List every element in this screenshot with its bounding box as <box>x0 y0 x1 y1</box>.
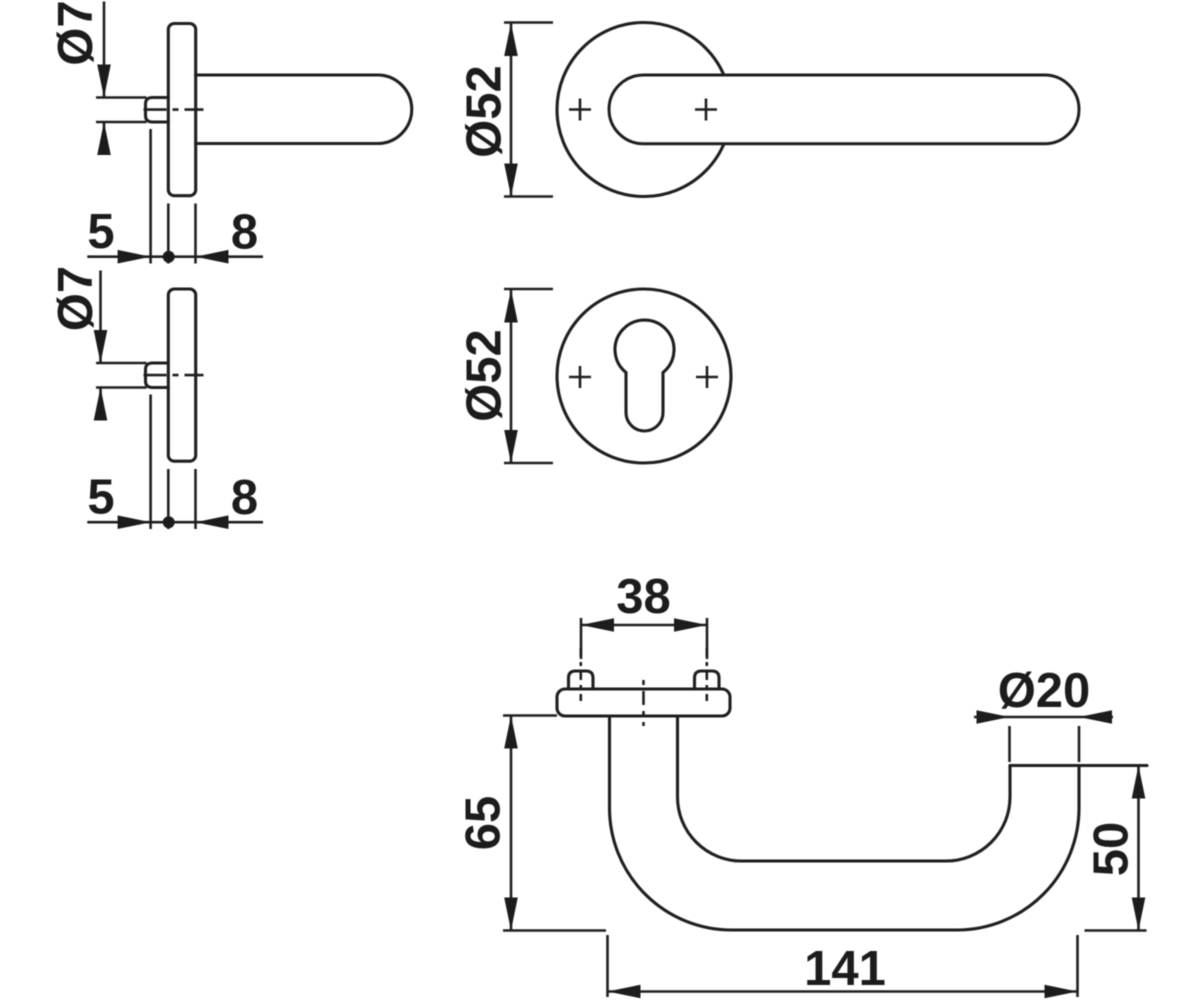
svg-text:Ø20: Ø20 <box>998 664 1091 718</box>
arrow Ø7 bottom <box>94 388 108 421</box>
arrow 38 left <box>581 618 614 632</box>
arrow 8 <box>196 515 229 529</box>
cross mark right <box>696 366 718 388</box>
extension line rose front <box>194 204 197 264</box>
arrow 8 <box>196 250 229 264</box>
svg-text:65: 65 <box>457 796 511 851</box>
mounting plate <box>557 689 730 716</box>
dimension Ø52 line <box>510 23 513 197</box>
arrow 65 up <box>504 716 518 749</box>
svg-text:5: 5 <box>87 471 114 525</box>
dimension 50 line <box>1137 766 1140 931</box>
dimension line 5 / 8 <box>87 521 263 524</box>
plate centerline <box>642 680 645 726</box>
escutcheon circle <box>557 289 731 463</box>
screw left <box>569 671 594 689</box>
centerline <box>144 108 204 111</box>
arrow 38 right <box>674 618 707 632</box>
screw right <box>695 671 720 689</box>
dimension Ø7 leader line <box>99 271 102 364</box>
cross mark handle <box>695 99 717 121</box>
svg-text:38: 38 <box>616 570 671 624</box>
svg-text:Ø7: Ø7 <box>49 0 103 65</box>
extension lines Ø7 <box>96 96 147 99</box>
extension line 38 right <box>706 618 709 659</box>
handle U inner contour <box>678 716 1011 861</box>
tick bottom <box>504 195 553 198</box>
tick bottom <box>504 462 553 465</box>
escutcheon rose side view <box>168 289 195 461</box>
svg-text:5: 5 <box>87 205 114 259</box>
extension line 141 right <box>1076 935 1079 997</box>
svg-text:8: 8 <box>231 471 258 525</box>
arrow Ø7 top <box>94 330 108 363</box>
tick top <box>504 21 553 24</box>
dimension 38 line <box>581 624 707 627</box>
dimension line 5 / 8 <box>87 255 263 258</box>
arrow Ø20 right <box>1079 710 1112 724</box>
tick 65/141 bottom left <box>503 929 606 932</box>
tick 65 top <box>503 714 557 717</box>
euro profile cylinder hole <box>615 320 674 431</box>
extension line rose back <box>167 469 170 529</box>
arrow Ø7 top <box>97 65 111 98</box>
arrow down <box>504 164 518 197</box>
rose front view circle <box>557 23 731 197</box>
arrow 5 <box>118 515 151 529</box>
arrow up <box>504 290 518 323</box>
arrow 141 right <box>1045 985 1078 999</box>
dimension Ø7 leader line <box>103 2 106 98</box>
svg-text:8: 8 <box>231 206 258 260</box>
rose plate side view <box>168 24 195 196</box>
centerline <box>144 374 204 377</box>
handle tube end top line <box>1010 764 1147 767</box>
arrow Ø20 left <box>977 710 1010 724</box>
tick 50/141 bottom right <box>1085 929 1147 932</box>
dimension 65 line <box>510 716 513 931</box>
extension line rose front <box>194 469 197 529</box>
cylinder nub <box>146 363 169 388</box>
arrow 141 left <box>608 985 641 999</box>
arrow 50 up <box>1132 766 1146 799</box>
extension line 38 left <box>580 618 583 659</box>
dimension Ø20 line <box>974 716 1113 719</box>
svg-text:141: 141 <box>804 942 886 996</box>
extension line nub face <box>149 395 152 530</box>
extension lines Ø7 <box>96 362 147 365</box>
svg-text:Ø7: Ø7 <box>49 266 103 331</box>
lever grip stadium <box>609 75 1079 144</box>
arrow up <box>504 23 518 56</box>
dimension Ø52 line <box>510 290 513 464</box>
cross mark rose center <box>569 99 591 121</box>
screw centerline left <box>579 648 582 701</box>
tick top <box>504 288 553 291</box>
svg-text:Ø52: Ø52 <box>458 329 512 422</box>
extension line nub face <box>149 129 152 264</box>
svg-text:Ø52: Ø52 <box>458 65 512 158</box>
handle neck nub <box>146 98 169 123</box>
arrow 65 down <box>504 898 518 931</box>
arrow 5 <box>118 250 151 264</box>
dimension 141 line <box>608 990 1078 993</box>
extension line Ø20 left <box>1008 726 1011 762</box>
arrow 50 down <box>1132 898 1146 931</box>
junction dot <box>163 251 175 263</box>
handle U outer contour <box>610 716 1080 930</box>
cross mark left <box>569 366 591 388</box>
arrow down <box>504 430 518 463</box>
handle grip side view <box>196 75 412 144</box>
extension line rose back <box>167 204 170 264</box>
arrow Ø7 bottom <box>97 122 111 155</box>
screw centerline right <box>705 648 708 701</box>
svg-text:50: 50 <box>1085 822 1139 877</box>
extension line 141 left <box>606 935 609 997</box>
junction dot <box>163 516 175 528</box>
extension line Ø20 right <box>1078 726 1081 762</box>
